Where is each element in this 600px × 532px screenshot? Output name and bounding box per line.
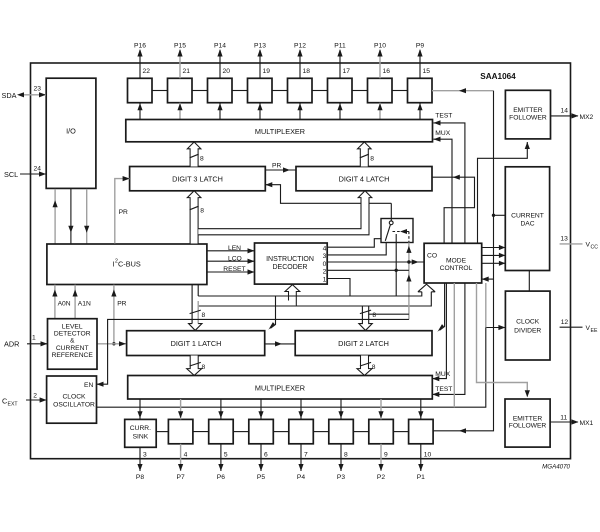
svg-text:DIGIT 4 LATCH: DIGIT 4 LATCH <box>339 174 390 183</box>
svg-text:EN: EN <box>84 382 93 389</box>
svg-text:8: 8 <box>202 312 206 319</box>
wire mode control to current DAC line 1 <box>482 247 506 249</box>
svg-text:SDA: SDA <box>2 91 17 100</box>
svg-text:P11: P11 <box>334 42 346 49</box>
I/O block U-IO <box>46 78 96 188</box>
svg-text:22: 22 <box>143 68 151 75</box>
svg-text:P7: P7 <box>177 474 185 481</box>
wire digit 4 latch to digit 3 latch <box>265 185 391 204</box>
wire level detector to digit 1 latch <box>97 343 127 345</box>
svg-text:MX1: MX1 <box>580 420 594 427</box>
svg-text:DIGIT 2 LATCH: DIGIT 2 LATCH <box>338 339 389 348</box>
svg-text:CO: CO <box>427 253 437 260</box>
svg-text:2: 2 <box>33 392 37 399</box>
wire decoder output 0 to mode control <box>327 261 424 263</box>
svg-text:8: 8 <box>370 156 374 163</box>
svg-text:P10: P10 <box>374 42 386 49</box>
bus arrow digit 3 latch to multiplexer 1 (8) <box>187 142 201 167</box>
driver square P10 pin 16 <box>352 42 392 119</box>
wire clock oscillator output to clock divider <box>97 328 506 408</box>
svg-text:C: C <box>2 397 7 406</box>
svg-text:TEST: TEST <box>435 386 452 393</box>
DIGIT 2 LATCH block U-D2 <box>295 331 432 356</box>
svg-text:1: 1 <box>32 335 36 342</box>
wire decoder output 2 <box>327 269 409 271</box>
svg-text:8: 8 <box>202 364 206 371</box>
svg-text:3: 3 <box>143 451 147 458</box>
bus arrow into mode control (8) <box>418 284 435 292</box>
wire mode control net to P1 square right edge <box>433 91 493 431</box>
junction at PR / level detector output <box>112 342 115 345</box>
I2C-BUS block U-I2C <box>47 244 207 285</box>
driver square P14 pin 20 <box>192 42 232 119</box>
wire mode control to current DAC line 2 <box>482 254 506 256</box>
wire mode control to oscillator output net <box>453 283 455 407</box>
svg-text:P13: P13 <box>254 42 266 49</box>
wire mode control to emitter follower top <box>478 142 528 243</box>
svg-text:ADR: ADR <box>4 340 19 349</box>
wire latch clock line to switch pole <box>390 203 392 221</box>
svg-text:2: 2 <box>323 269 327 276</box>
wire mode control to digit 4 latch right edge <box>432 177 475 243</box>
svg-text:8: 8 <box>344 451 348 458</box>
svg-text:C-BUS: C-BUS <box>118 260 141 269</box>
wire VEE (pin 12) <box>560 326 583 328</box>
wire I/O to I2C-BUS line 1 <box>54 189 56 244</box>
wire CEXT (pin 2) <box>26 399 47 401</box>
wire mode control to P9 square right edge <box>432 90 494 92</box>
CLOCK DIVIDER block U-DIV <box>505 291 550 360</box>
svg-text:MX2: MX2 <box>580 114 594 121</box>
wire MUX into multiplexer 2 <box>432 283 446 379</box>
svg-text:P15: P15 <box>174 42 186 49</box>
svg-text:P12: P12 <box>294 42 306 49</box>
svg-text:11: 11 <box>560 414 567 421</box>
DIGIT 1 LATCH block U-D1 <box>127 331 265 356</box>
wire LCO I2C-BUS to decoder <box>207 260 255 262</box>
wire mode control to digit 2 latch <box>440 283 445 330</box>
svg-text:MUX: MUX <box>435 130 450 137</box>
svg-text:PR: PR <box>117 300 126 307</box>
CLOCK OSCILLATOR block U-OSC <box>47 376 97 423</box>
svg-text:EMITTER: EMITTER <box>513 416 543 423</box>
svg-text:8: 8 <box>200 156 204 163</box>
IC outline border SAA1064 <box>31 63 571 459</box>
bus digit 4 latch feed from I2C bus <box>198 191 371 235</box>
bus arrow digit 4 latch to multiplexer 1 (8) <box>358 142 372 167</box>
wire decoder output 3 to switch <box>327 243 386 255</box>
driver square P1 pin 10 <box>393 399 433 481</box>
svg-text:DECODER: DECODER <box>272 264 307 271</box>
driver square P11 pin 17 <box>312 42 352 119</box>
svg-text:SINK: SINK <box>133 433 149 440</box>
CURR SINK block U-CS pin 3 <box>125 399 157 481</box>
svg-text:REFERENCE: REFERENCE <box>52 352 94 359</box>
wire MX1 (pin 11) <box>550 421 578 423</box>
wire SCL (pin 24) <box>20 173 46 175</box>
wire MX2 (pin 14) <box>551 115 579 117</box>
svg-text:24: 24 <box>34 166 42 173</box>
bus arrow digit 1 latch to multiplexer 2 (8) <box>187 356 202 376</box>
driver square P9 pin 15 <box>392 42 432 119</box>
svg-text:MULTIPLEXER: MULTIPLEXER <box>255 383 305 392</box>
wire mode control to emitter follower bottom <box>477 283 528 397</box>
svg-text:MULTIPLEXER: MULTIPLEXER <box>255 127 305 136</box>
wire VCC (pin 13) <box>560 243 583 245</box>
svg-text:CLOCK: CLOCK <box>516 319 540 326</box>
driver square P6 pin 5 <box>193 399 233 481</box>
svg-text:FOLLOWER: FOLLOWER <box>509 115 547 122</box>
driver square P5 pin 6 <box>233 399 273 481</box>
wire TEST into multiplexer 2 <box>432 283 465 394</box>
bus 8-bit trunk from I2C-BUS lower <box>192 285 198 324</box>
svg-text:FOLLOWER: FOLLOWER <box>509 423 547 430</box>
svg-text:18: 18 <box>303 68 311 75</box>
svg-text:P6: P6 <box>217 474 225 481</box>
wire into mode control right edge <box>482 278 494 280</box>
MODE CONTROL block U-MC <box>424 243 482 283</box>
svg-text:A1N: A1N <box>78 300 91 307</box>
driver square P16 pin 22 <box>128 42 153 119</box>
svg-text:P1: P1 <box>417 474 425 481</box>
INSTRUCTION DECODER block U-DEC <box>255 243 328 284</box>
svg-text:20: 20 <box>223 68 231 75</box>
svg-text:CLOCK: CLOCK <box>62 393 86 400</box>
bus arrow I2C-BUS to digit 3 latch (8) <box>187 191 201 244</box>
driver square P7 pin 4 <box>156 399 193 481</box>
wire current DAC to clock divider <box>528 271 530 292</box>
wire SDA (pin 23) <box>19 94 46 96</box>
svg-text:19: 19 <box>263 68 271 75</box>
wire MUX into multiplexer 1 <box>434 139 453 243</box>
svg-text:SCL: SCL <box>4 170 18 179</box>
wire switch control down to EN net <box>408 243 410 320</box>
svg-text:A0N: A0N <box>58 300 71 307</box>
svg-text:P3: P3 <box>337 474 345 481</box>
svg-text:4: 4 <box>323 246 327 253</box>
svg-text:DAC: DAC <box>520 221 534 228</box>
svg-text:0: 0 <box>323 261 327 268</box>
svg-text:4: 4 <box>184 451 188 458</box>
svg-text:5: 5 <box>224 451 228 458</box>
EMITTER FOLLOWER top block U-EF2 <box>505 90 550 139</box>
svg-text:10: 10 <box>424 451 432 458</box>
svg-text:P4: P4 <box>297 474 305 481</box>
wire RESET I2C-BUS to decoder <box>207 271 255 273</box>
bus arrow into digit 1 latch (8) <box>189 324 202 331</box>
DIGIT 3 LATCH block U-D3 <box>130 167 266 191</box>
svg-text:21: 21 <box>183 68 191 75</box>
svg-text:&: & <box>70 338 75 345</box>
svg-text:P14: P14 <box>214 42 226 49</box>
driver square P13 pin 19 <box>232 42 272 119</box>
driver square P4 pin 7 <box>273 399 313 481</box>
svg-text:TEST: TEST <box>435 113 452 120</box>
svg-text:DIVIDER: DIVIDER <box>514 328 541 335</box>
svg-text:6: 6 <box>264 451 268 458</box>
svg-text:PR: PR <box>119 209 128 216</box>
driver square P3 pin 8 <box>313 399 353 481</box>
svg-text:3: 3 <box>323 253 327 260</box>
svg-text:PR: PR <box>272 162 281 169</box>
svg-text:1: 1 <box>323 277 327 284</box>
wire decoder output 4 to switch <box>327 239 381 248</box>
svg-text:8: 8 <box>200 208 204 215</box>
MULTIPLEXER bottom block U-MUX2 <box>128 376 433 400</box>
svg-text:7: 7 <box>304 451 308 458</box>
svg-text:9: 9 <box>384 451 388 458</box>
wire mode control to clock divider feed <box>485 283 487 328</box>
wire A1N from level detector to I2C-BUS <box>74 285 76 319</box>
wire enable row to latches <box>276 295 422 297</box>
wire junction to current DAC left edge <box>494 214 506 216</box>
svg-text:12: 12 <box>561 319 569 326</box>
driver square P2 pin 9 <box>353 399 393 481</box>
svg-text:DETECTOR: DETECTOR <box>54 331 91 338</box>
switch lever and contact <box>389 221 393 225</box>
switch dashed select line <box>393 231 409 233</box>
switch S1 box <box>381 219 413 243</box>
svg-text:8: 8 <box>372 312 376 319</box>
svg-text:23: 23 <box>34 86 42 93</box>
svg-text:CONTROL: CONTROL <box>440 265 473 272</box>
wire I/O to I2C-BUS line 3 <box>86 189 88 244</box>
wire digit 1 latch to digit 2 latch <box>265 343 296 345</box>
junction switch output and decoder 2 <box>395 269 398 272</box>
svg-text:16: 16 <box>383 68 391 75</box>
wire ADR (pin 1) <box>27 343 48 345</box>
DIGIT 4 LATCH block U-D4 <box>296 167 432 191</box>
bus arrow into digit 2 latch (8) <box>359 306 372 330</box>
svg-text:P8: P8 <box>136 474 144 481</box>
svg-text:CURRENT: CURRENT <box>511 213 544 220</box>
wire stub bus to switch line <box>369 313 409 315</box>
driver square P15 pin 21 <box>152 42 192 119</box>
bus arrow digit 2 latch to multiplexer 2 (8) <box>357 356 372 376</box>
junction on switch line at decoder 0 row <box>407 260 410 263</box>
svg-text:8: 8 <box>372 364 376 371</box>
wire A0N from level detector to I2C-BUS <box>54 285 56 319</box>
bus arrow into instruction decoder (8) <box>285 285 300 306</box>
svg-text:I/O: I/O <box>66 127 76 136</box>
wire LEN I2C-BUS to decoder <box>207 250 255 252</box>
svg-text:MGA4070: MGA4070 <box>542 464 570 471</box>
svg-text:CURR.: CURR. <box>130 425 151 432</box>
wire EN net to clock oscillator <box>97 319 409 384</box>
CURRENT DAC block U-DAC <box>505 167 549 271</box>
svg-text:DIGIT 1 LATCH: DIGIT 1 LATCH <box>171 339 222 348</box>
svg-text:P16: P16 <box>134 42 146 49</box>
svg-text:17: 17 <box>343 68 351 75</box>
LEVEL DETECTOR & CURRENT REFERENCE block U-LD <box>48 319 98 370</box>
svg-text:15: 15 <box>423 68 431 75</box>
svg-text:OSCILLATOR: OSCILLATOR <box>53 401 95 408</box>
svg-text:SAA1064: SAA1064 <box>480 72 516 81</box>
svg-text:INSTRUCTION: INSTRUCTION <box>266 256 314 263</box>
svg-text:DIGIT 3 LATCH: DIGIT 3 LATCH <box>172 174 223 183</box>
wire PR from I2C-BUS to digit 3 latch <box>115 179 130 244</box>
svg-text:P5: P5 <box>257 474 265 481</box>
svg-text:CURRENT: CURRENT <box>56 345 89 352</box>
wire I/O to I2C-BUS line 2 <box>70 189 72 244</box>
svg-text:P2: P2 <box>377 474 385 481</box>
svg-text:MODE: MODE <box>446 258 467 265</box>
svg-text:EE: EE <box>591 328 598 334</box>
svg-text:LEVEL: LEVEL <box>62 323 83 330</box>
junction to current DAC <box>492 214 495 217</box>
wire PR digit 3 latch to digit 4 latch <box>265 169 296 171</box>
wire switch output down <box>395 234 397 296</box>
wire TEST into multiplexer 1 <box>434 123 465 243</box>
svg-text:14: 14 <box>561 108 569 115</box>
MULTIPLEXER top block U-MUX1 <box>126 120 433 142</box>
EMITTER FOLLOWER bottom block U-EF1 <box>505 399 550 447</box>
driver square P12 pin 18 <box>272 42 312 119</box>
svg-text:CC: CC <box>591 245 599 251</box>
svg-text:EXT: EXT <box>8 402 19 408</box>
wire decoder output 1 to digit 1 latch <box>327 279 350 297</box>
svg-text:EMITTER: EMITTER <box>513 107 543 114</box>
wire PR lower from I2C-BUS down to junction <box>113 285 115 344</box>
svg-text:P9: P9 <box>416 42 424 49</box>
svg-text:13: 13 <box>560 235 568 242</box>
wire mode control to current DAC line 3 <box>482 262 506 264</box>
